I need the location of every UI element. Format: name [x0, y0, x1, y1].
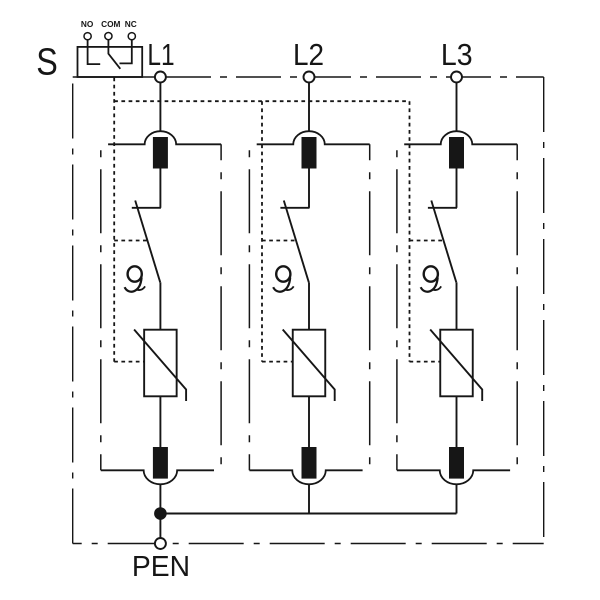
junction node	[154, 507, 167, 520]
svg-text:NC: NC	[125, 19, 137, 29]
wire: L2 terminal to module	[308, 83, 310, 132]
bottom plug contact (black) L1	[153, 447, 168, 479]
dotted branch to switch blade L2	[262, 240, 296, 242]
thermal disconnector blade L1	[135, 201, 160, 283]
wire: contact to disconnector L2	[308, 169, 310, 208]
module box L3: left edge (dash-dot)	[396, 144, 398, 470]
top plug contact (black) L3	[449, 137, 464, 169]
wire: L3 terminal to module	[456, 83, 458, 132]
module box L2: right edge (dash-dot)	[369, 144, 371, 470]
module box L1: left edge (dash-dot)	[100, 144, 102, 470]
varistor L2 body	[293, 330, 326, 397]
remote signalling changeover contact box	[78, 47, 143, 77]
terminal NO	[88, 40, 101, 64]
terminal L2	[304, 72, 315, 83]
terminal NC	[120, 40, 132, 64]
top plug contact (black) L2	[302, 137, 317, 169]
module box L3: right edge (dash-dot)	[516, 144, 518, 470]
module box L2: top edge with plug contact bulge	[257, 131, 370, 144]
theta symbol L3	[421, 266, 442, 291]
wire: disconnector to varistor L3	[456, 282, 458, 329]
PEN bus	[160, 513, 456, 515]
top plug contact (black) L1	[153, 137, 168, 169]
wire: contact to disconnector L1	[159, 169, 161, 208]
dotted vertical L3	[409, 101, 411, 362]
svg-text:COM: COM	[101, 19, 120, 29]
wire: contact to disconnector L3	[456, 169, 458, 208]
dotted vertical L2	[261, 101, 263, 362]
varistor L2 diagonal stroke	[283, 330, 335, 402]
thermal disconnector blade L3	[431, 201, 456, 283]
dotted branch to switch blade L1	[114, 240, 147, 242]
svg-text:PEN: PEN	[132, 550, 190, 582]
dotted branch to switch blade L3	[410, 240, 444, 242]
terminal L1	[155, 72, 166, 83]
thermal disconnector fixed contact L3	[428, 207, 457, 209]
module box L2: bottom edge with plug contact notch	[249, 470, 362, 484]
wire: varistor to bottom contact L3	[456, 396, 458, 447]
thermal-disconnector monitoring linkage (dotted)	[114, 78, 443, 362]
module box L3: bottom edge with plug contact notch	[397, 470, 510, 484]
terminal L3	[451, 72, 462, 83]
wire: bottom contact to PEN bus L2	[308, 484, 310, 513]
bottom plug contact (black) L3	[449, 447, 464, 479]
dotted horizontal link across legs	[114, 100, 409, 102]
module box L1: right edge (dash-dot)	[220, 144, 222, 470]
svg-text:L3: L3	[441, 38, 473, 72]
varistor L1 body	[144, 330, 177, 397]
theta symbol L2	[273, 266, 294, 291]
wire: bottom contact to PEN bus L3	[456, 484, 458, 513]
dotted vertical from contact S to L1 disconnector	[113, 78, 115, 362]
wire: disconnector to varistor L2	[308, 282, 310, 329]
wire: varistor to bottom contact L1	[159, 396, 161, 447]
wire: bottom contact to PEN bus L1	[159, 484, 161, 513]
terminal COM with switch blade	[108, 40, 120, 69]
dotted branch to varistor L1	[114, 361, 144, 363]
thermal disconnector fixed contact L2	[280, 207, 309, 209]
thermal disconnector fixed contact L1	[132, 207, 161, 209]
svg-text:NO: NO	[81, 19, 94, 29]
PEN terminal	[155, 538, 166, 549]
varistor L1 diagonal stroke	[134, 330, 186, 402]
module box L2: left edge (dash-dot)	[248, 144, 250, 470]
module box L3: top edge with plug contact bulge	[404, 131, 517, 144]
outer enclosure border (dash-dot)	[73, 77, 544, 544]
wire: varistor to bottom contact L2	[308, 396, 310, 447]
dotted branch to varistor L2	[262, 361, 293, 363]
module box L1: bottom edge with plug contact notch	[101, 470, 214, 484]
wire: disconnector to varistor L1	[159, 282, 161, 329]
svg-text:L1: L1	[147, 37, 174, 71]
wire: L1 terminal to module	[159, 83, 161, 132]
svg-text:S: S	[36, 41, 58, 83]
bottom plug contact (black) L2	[302, 447, 317, 479]
svg-text:L2: L2	[293, 37, 324, 72]
varistor L3 diagonal stroke	[430, 330, 482, 402]
varistor L3 body	[440, 330, 473, 397]
wire: junction to PEN terminal	[159, 514, 161, 539]
theta symbol L1	[125, 266, 146, 291]
dotted branch to varistor L3	[410, 361, 441, 363]
thermal disconnector blade L2	[284, 201, 309, 283]
module box L1: top edge with plug contact bulge	[108, 131, 221, 144]
